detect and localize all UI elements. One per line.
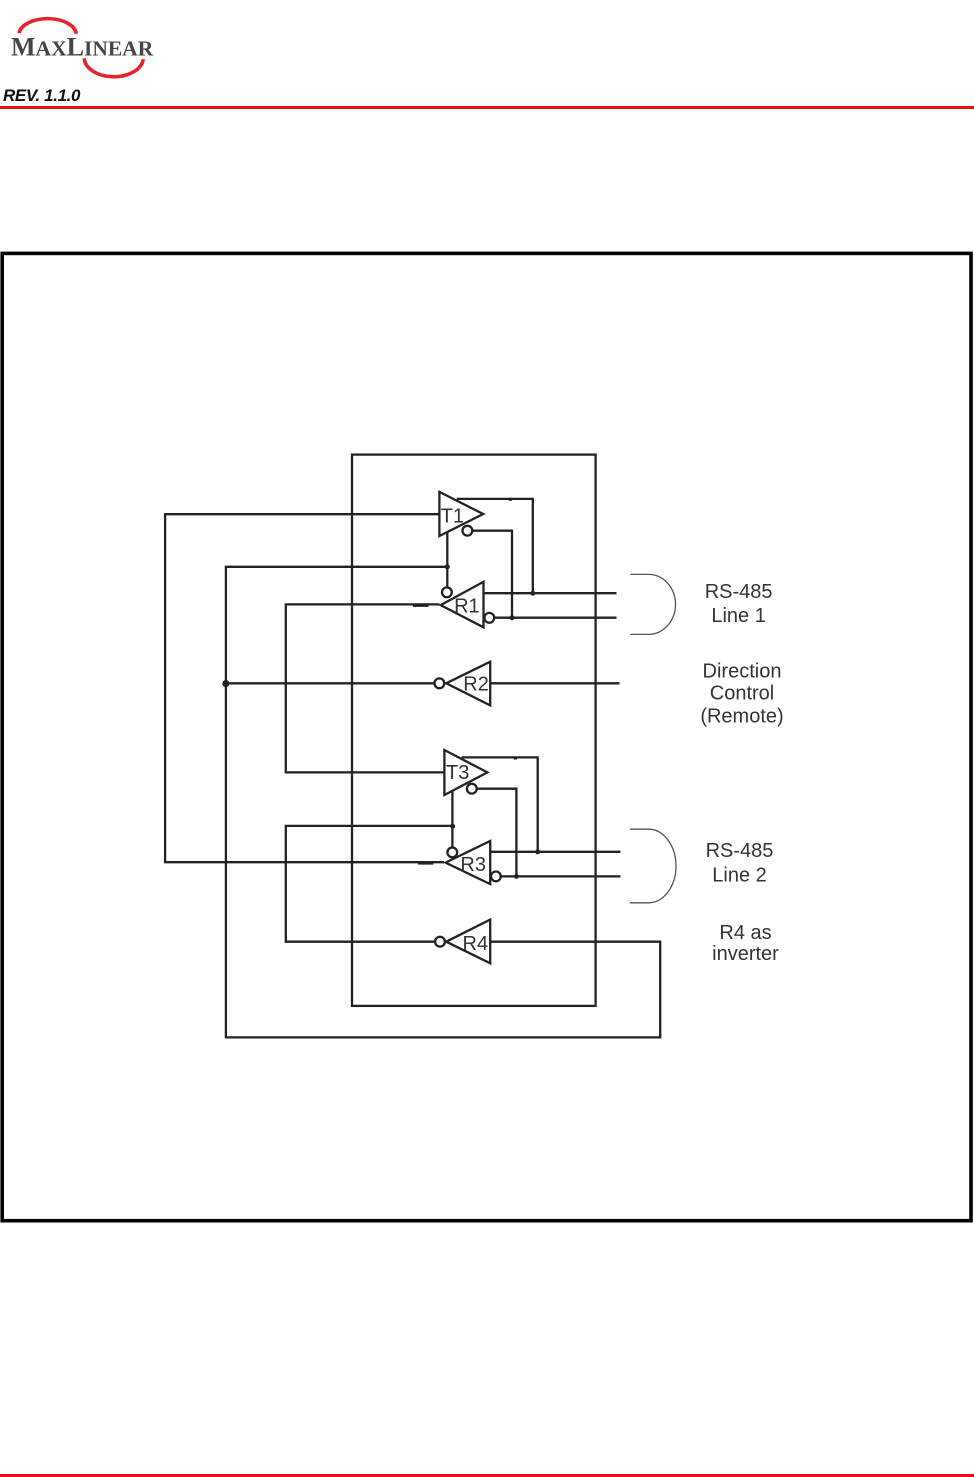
svg-text:T1: T1 <box>441 506 464 528</box>
svg-text:Direction: Direction <box>703 660 782 682</box>
svg-text:Control: Control <box>710 683 774 705</box>
svg-text:R1: R1 <box>454 596 480 618</box>
svg-text:R2: R2 <box>463 673 489 695</box>
svg-text:(Remote): (Remote) <box>700 706 783 728</box>
svg-text:inverter: inverter <box>712 943 779 965</box>
svg-text:RS-485: RS-485 <box>706 840 774 862</box>
svg-text:R3: R3 <box>460 854 486 876</box>
svg-text:R4: R4 <box>463 933 489 955</box>
svg-text:Line 2: Line 2 <box>712 864 767 886</box>
svg-text:RS-485: RS-485 <box>705 581 773 603</box>
svg-text:R4 as: R4 as <box>719 922 771 944</box>
svg-text:Line 1: Line 1 <box>711 605 766 627</box>
svg-text:T3: T3 <box>446 762 469 784</box>
